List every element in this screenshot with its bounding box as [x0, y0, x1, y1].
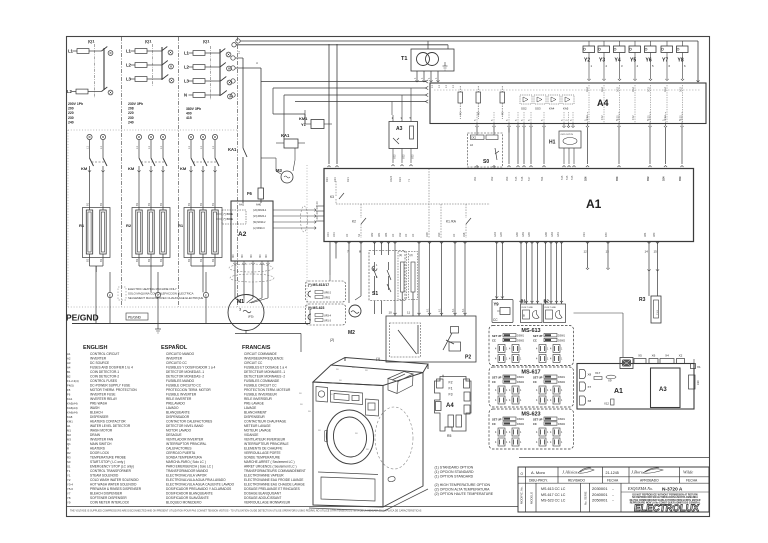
connector X5 X6 X4 X2	[634, 359, 646, 364]
svg-text:G81: G81	[556, 232, 560, 237]
svg-text:MOTOR THERM. PROTECTION: MOTOR THERM. PROTECTION	[90, 388, 137, 392]
svg-text:B1: B1	[147, 202, 151, 206]
svg-text:6.1: 6.1	[451, 308, 455, 312]
svg-text:UR0-2: UR0-2	[324, 292, 332, 295]
svg-text:X0: X0	[345, 233, 349, 237]
svg-text:ELECTROLUX: ELECTROLUX	[633, 503, 700, 514]
svg-text:T1: T1	[67, 469, 71, 473]
svg-text:UR3-4: UR3-4	[324, 315, 332, 318]
svg-text:K94: K94	[325, 177, 329, 182]
svg-text:X04: X04	[332, 232, 336, 237]
svg-text:KM: KM	[81, 166, 88, 171]
svg-text:S2: S2	[357, 233, 361, 237]
svg-text:A4: A4	[67, 366, 71, 370]
heater area dotted enclosure	[68, 129, 237, 131]
svg-text:240: 240	[68, 120, 74, 124]
svg-text:B2: B2	[135, 258, 139, 262]
svg-text:240: 240	[128, 120, 134, 124]
svg-text:DO NOT REPRODUCE WITHOUT PERMI: DO NOT REPRODUCE WITHOUT PERMISSION AT R…	[632, 493, 698, 496]
legend separator line	[67, 506, 519, 508]
svg-text:AH2: AH2	[239, 203, 245, 207]
svg-text:WATER LEVEL DETECTOR: WATER LEVEL DETECTOR	[90, 424, 131, 428]
svg-text:NE PAS COMMUNIQUER SANS AUTORI: NE PAS COMMUNIQUER SANS AUTORISATION ECR…	[630, 499, 701, 502]
svg-text:X08: X08	[425, 232, 429, 237]
fuses F1 F2 F3 inside A4	[458, 92, 463, 103]
svg-text:--: --	[612, 487, 614, 491]
svg-text:ELECTROVANNE EAU FROIDE LAVAGE: ELECTROVANNE EAU FROIDE LAVAGE	[244, 478, 303, 482]
svg-text:552: 552	[615, 176, 619, 181]
svg-text:(*) MS-613/17: (*) MS-613/17	[308, 283, 329, 287]
svg-text:S0: S0	[67, 460, 71, 464]
svg-text:A3: A3	[659, 387, 667, 393]
svg-text:X0: X0	[315, 206, 319, 210]
svg-text:230V 3Ph: 230V 3Ph	[128, 102, 143, 106]
wires S1 to P2	[374, 301, 376, 314]
svg-text:VERROUILLAGE PORTE: VERROUILLAGE PORTE	[244, 451, 281, 455]
svg-text:PRELAVADO: PRELAVADO	[166, 402, 186, 406]
svg-text:F1-2-3(4): F1-2-3(4)	[67, 379, 79, 383]
svg-text:PE/GND: PE/GND	[128, 315, 142, 319]
svg-text:F5: F5	[67, 388, 71, 392]
svg-text:SET UP: SET UP	[533, 376, 543, 380]
svg-text:DOOR LOCK: DOOR LOCK	[90, 451, 110, 455]
svg-text:B2: B2	[67, 375, 71, 379]
A2 aux connector	[222, 210, 246, 224]
svg-text:DETECTOR NIVEL BANO: DETECTOR NIVEL BANO	[166, 424, 204, 428]
svg-text:N: N	[184, 93, 187, 98]
svg-text:H1: H1	[67, 424, 71, 428]
svg-text:D21: D21	[346, 177, 350, 182]
X-block dark component	[620, 358, 633, 369]
svg-text:E: E	[205, 294, 207, 298]
svg-text:Y5-6: Y5-6	[67, 487, 73, 491]
title strip line	[519, 457, 709, 459]
svg-text:X4: X4	[665, 354, 669, 358]
svg-text:SET UP: SET UP	[492, 418, 502, 422]
svg-text:MAIN SWITCH: MAIN SWITCH	[90, 442, 112, 446]
svg-text:384: 384	[384, 232, 388, 237]
svg-text:10: 10	[389, 311, 393, 315]
svg-text:HEATERS: HEATERS	[90, 447, 105, 451]
svg-text:X0: X0	[411, 233, 415, 237]
svg-text:KA1: KA1	[281, 133, 290, 138]
svg-text:382: 382	[370, 232, 374, 237]
svg-text:(2) HIGH TEMPERATURE OPTION: (2) HIGH TEMPERATURE OPTION	[435, 483, 491, 487]
svg-text:KM1: KM1	[299, 116, 308, 121]
svg-text:B1: B1	[67, 370, 71, 374]
svg-text:200V 1Ph: 200V 1Ph	[68, 102, 83, 106]
svg-text:NO REPRODUCIR SIN AUTORIZACION: NO REPRODUCIR SIN AUTORIZACION ESCRITA D…	[632, 496, 698, 499]
svg-text:CONTROL CIRCUIT: CONTROL CIRCUIT	[90, 352, 119, 356]
connector box MS-617	[489, 367, 574, 407]
svg-text:DSW1: DSW1	[517, 418, 525, 421]
svg-text:Q1: Q1	[67, 442, 71, 446]
svg-text:K3: K3	[330, 195, 334, 199]
svg-text:3G2: 3G2	[600, 87, 604, 92]
svg-text:ARRET URGENCE ( Seulement LC ): ARRET URGENCE ( Seulement LC )	[244, 465, 297, 469]
machine door	[324, 408, 376, 467]
svg-text:1X: 1X	[442, 374, 445, 377]
coin unit S0 box	[468, 133, 503, 167]
svg-text:1S2: 1S2	[585, 115, 589, 120]
ground under T1	[444, 62, 446, 66]
svg-text:393: 393	[505, 176, 509, 181]
svg-text:DISPENSER: DISPENSER	[90, 415, 109, 419]
svg-text:M1: M1	[67, 429, 71, 433]
washing machine outline	[313, 358, 428, 508]
svg-text:INVERSEUR/FREQUENCE: INVERSEUR/FREQUENCE	[244, 357, 284, 361]
svg-text:MARCHA-PARO ( Solo LC ): MARCHA-PARO ( Solo LC )	[166, 460, 206, 464]
svg-text:PROTECTION TERM. MOTEUR: PROTECTION TERM. MOTEUR	[244, 388, 291, 392]
svg-text:R: R	[67, 447, 69, 451]
MS-613/17 option box	[306, 281, 346, 302]
ground symbol	[157, 324, 159, 330]
svg-text:FUSES AND DOSIFIER 1 to 4: FUSES AND DOSIFIER 1 to 4	[90, 366, 133, 370]
svg-text:S1: S1	[372, 291, 378, 297]
svg-text:VENTILATEUR INVERSEUR: VENTILATEUR INVERSEUR	[244, 438, 286, 442]
A4 connector detail	[435, 377, 472, 432]
svg-text:K50: K50	[604, 232, 608, 237]
wires to P2	[394, 242, 396, 316]
svg-text:A. Moro: A. Moro	[531, 470, 546, 475]
svg-text:PREWASH & RINSES DISPENSER: PREWASH & RINSES DISPENSER	[90, 487, 142, 491]
svg-text:VERROUILLAGE MONNAYEUR: VERROUILLAGE MONNAYEUR	[244, 501, 291, 505]
heater group frame R2	[132, 208, 170, 258]
option resistors (1)(2)	[398, 252, 407, 300]
svg-text:CC: CC	[493, 318, 498, 322]
svg-text:MS-613: MS-613	[521, 328, 540, 334]
svg-text:(2): (2)	[330, 338, 334, 342]
svg-text:220: 220	[68, 111, 74, 115]
svg-text:R2: R2	[126, 223, 132, 228]
svg-text:KA6(A4): KA6(A4)	[67, 406, 78, 410]
svg-text:LAVADO: LAVADO	[166, 406, 179, 410]
svg-text:T300: T300	[656, 309, 659, 315]
svg-text:R3: R3	[67, 456, 71, 460]
svg-text:X02: X02	[393, 154, 397, 159]
titleblock models	[535, 483, 537, 512]
svg-text:J.Alisias: J.Alisias	[562, 470, 578, 475]
svg-text:MODELO: MODELO	[530, 491, 534, 504]
svg-text:220: 220	[128, 111, 134, 115]
svg-text:D: D	[255, 62, 259, 64]
svg-text:(*) BR0E: (*) BR0E	[224, 213, 234, 216]
svg-text:FUSIBLES COMMANDE: FUSIBLES COMMANDE	[244, 379, 279, 383]
svg-text:Y9: Y9	[67, 501, 71, 505]
svg-text:N-3720 A: N-3720 A	[662, 487, 683, 493]
svg-text:SET UP: SET UP	[533, 418, 543, 422]
svg-text:FRANCAIS: FRANCAIS	[242, 345, 271, 351]
svg-text:A2: A2	[67, 357, 71, 361]
heater resistors R1	[86, 210, 92, 254]
PE terminal	[107, 292, 112, 297]
svg-text:Y2: Y2	[67, 478, 71, 482]
svg-text:(F5): (F5)	[248, 315, 254, 319]
svg-text:IN SLT GND: IN SLT GND	[545, 307, 557, 309]
svg-text:KM: KM	[128, 166, 135, 171]
svg-text:HOT WASH WATER SOLENOID: HOT WASH WATER SOLENOID	[90, 483, 137, 487]
svg-text:X02: X02	[411, 154, 415, 159]
svg-text:338: 338	[462, 232, 466, 237]
svg-text:KA5: KA5	[563, 107, 569, 111]
svg-text:--: --	[612, 493, 614, 497]
svg-text:3G2: 3G2	[679, 87, 683, 92]
svg-text:WASH MOTOR: WASH MOTOR	[90, 429, 113, 433]
svg-text:X1: X1	[697, 365, 701, 369]
top bus wires	[236, 39, 240, 43]
svg-text:--: --	[612, 499, 614, 503]
svg-text:FUSIBLES ET DOSAGE 1 a 4: FUSIBLES ET DOSAGE 1 a 4	[244, 366, 287, 370]
svg-text:1S2: 1S2	[663, 115, 667, 120]
svg-text:DSW1: DSW1	[558, 335, 566, 338]
svg-text:DSW1: DSW1	[558, 418, 566, 421]
connector X10	[689, 375, 696, 389]
svg-text:DSW1: DSW1	[517, 376, 525, 379]
svg-text:K1 /KA: K1 /KA	[446, 220, 457, 224]
svg-text:INTERRUPTEUR PRINCIPALE: INTERRUPTEUR PRINCIPALE	[244, 442, 289, 446]
svg-text:MS-623 CC LC: MS-623 CC LC	[541, 499, 566, 503]
svg-text:AH0: AH0	[256, 203, 262, 207]
svg-text:DOSAGE ADOUCISSANT: DOSAGE ADOUCISSANT	[244, 496, 281, 500]
machine dispenser box on top	[388, 372, 413, 394]
svg-text:B1: B1	[86, 202, 90, 206]
svg-text:M0: M0	[231, 254, 235, 258]
svg-text:DISPENSADOR: DISPENSADOR	[166, 415, 190, 419]
svg-text:BLOQUEO MONEDERO: BLOQUEO MONEDERO	[166, 501, 202, 505]
svg-text:FUSIBLE INVERSEUR: FUSIBLE INVERSEUR	[244, 393, 277, 397]
svg-text:ELECTROVANNE VAPEUR: ELECTROVANNE VAPEUR	[244, 474, 284, 478]
svg-text:S0: S0	[483, 159, 489, 165]
svg-text:F6: F6	[247, 191, 253, 196]
svg-text:ELEMENTS DE CHAUFFE: ELEMENTS DE CHAUFFE	[244, 447, 282, 451]
svg-text:ELECTROVANNE EAU CHAUDE LAVAGE: ELECTROVANNE EAU CHAUDE LAVAGE	[244, 483, 305, 487]
svg-text:KA6(A4): KA6(A4)	[67, 411, 78, 415]
svg-text:INVERTER: INVERTER	[90, 357, 107, 361]
svg-text:ELECTROVALVULA VAPOR: ELECTROVALVULA VAPOR	[166, 474, 207, 478]
svg-text:EMERGENCY STOP (LC only): EMERGENCY STOP (LC only)	[90, 465, 134, 469]
svg-text:ELECTROVALVULA AGUA FRIA LAVAD: ELECTROVALVULA AGUA FRIA LAVADO	[166, 478, 226, 482]
connector box MS-623	[489, 409, 574, 449]
svg-text:Y1: Y1	[301, 122, 307, 127]
svg-text:X10: X10	[696, 380, 700, 385]
svg-text:INVERTER: INVERTER	[166, 357, 183, 361]
svg-text:X17: X17	[595, 371, 601, 375]
svg-text:X0: X0	[315, 201, 319, 205]
svg-text:BLANCHIMENT: BLANCHIMENT	[244, 411, 267, 415]
svg-text:B1: B1	[211, 202, 215, 206]
inverter A2 box	[231, 201, 273, 261]
svg-text:21-1245: 21-1245	[606, 471, 619, 475]
svg-text:B1: B1	[159, 202, 163, 206]
svg-text:A1: A1	[614, 388, 623, 395]
svg-text:230: 230	[128, 116, 134, 120]
svg-text:|Q1: |Q1	[88, 39, 95, 44]
svg-text:E: E	[109, 294, 111, 298]
svg-text:HEATERS CONTACTOR: HEATERS CONTACTOR	[90, 420, 126, 424]
svg-text:3G2: 3G2	[663, 87, 667, 92]
svg-text:TRANSFORMATEURS COMMANDEMENT: TRANSFORMATEURS COMMANDEMENT	[244, 469, 306, 473]
svg-text:S1: S1	[67, 465, 71, 469]
svg-text:FECHA: FECHA	[686, 479, 698, 483]
svg-text:(1) OPCION STANDARD: (1) OPCION STANDARD	[435, 470, 474, 474]
svg-text:B2: B2	[211, 258, 215, 262]
drain pump M2	[348, 242, 350, 303]
svg-text:1S2: 1S2	[631, 115, 635, 120]
svg-text:516: 516	[520, 176, 524, 181]
svg-text:P2: P2	[465, 355, 471, 361]
svg-text:(U4) MX20-4: (U4) MX20-4	[253, 210, 267, 212]
svg-text:B2: B2	[187, 258, 191, 262]
control circuit A1 box	[324, 169, 694, 242]
svg-text:VIDANGE: VIDANGE	[244, 433, 258, 437]
svg-text:Y4: Y4	[615, 58, 621, 64]
machine drum dashed	[375, 407, 413, 469]
svg-text:VENTILADOR INVERTER: VENTILADOR INVERTER	[166, 438, 204, 442]
svg-text:COIN DETECTOR-2: COIN DETECTOR-2	[90, 375, 119, 379]
svg-text:DC-POWER SUPPLY FUSE: DC-POWER SUPPLY FUSE	[90, 384, 130, 388]
svg-text:MS-617 CC LC: MS-617 CC LC	[541, 493, 566, 497]
svg-text:D24: D24	[398, 177, 402, 182]
svg-text:3G2: 3G2	[647, 87, 651, 92]
svg-text:OK2 OUT IN: OK2 OUT IN	[561, 134, 574, 136]
svg-text:F1: F1	[449, 387, 453, 391]
svg-text:SEULEMENT MACHINE AVEC CHAUFFA: SEULEMENT MACHINE AVEC CHAUFFAGE ELECTRI…	[128, 296, 203, 300]
svg-text:553: 553	[678, 176, 682, 181]
section divider 1	[121, 37, 123, 307]
svg-text:3G2: 3G2	[631, 87, 635, 92]
svg-text:(1): (1)	[399, 253, 402, 257]
svg-text:DSW2: DSW2	[558, 381, 566, 384]
svg-text:11: 11	[407, 311, 410, 315]
svg-text:THE VOLTAGE IS SUPPLIED COMPRE: THE VOLTAGE IS SUPPLIED COMPRESSORS ARE …	[70, 510, 422, 513]
svg-text:PE/GND: PE/GND	[66, 313, 99, 323]
machine drain stub	[388, 476, 395, 481]
svg-text:FUSIBLES MANDO: FUSIBLES MANDO	[166, 379, 195, 383]
svg-text:Y9: Y9	[494, 302, 500, 307]
connectors X8 X7 X9 left	[580, 370, 586, 379]
svg-text:(1) STANDARD OPTION: (1) STANDARD OPTION	[435, 466, 474, 470]
svg-text:12: 12	[584, 250, 588, 254]
svg-text:F2: F2	[449, 381, 453, 385]
svg-text:332: 332	[398, 232, 402, 237]
svg-text:415: 415	[186, 116, 192, 120]
svg-text:CONTACTEUR CHAUFFAGE: CONTACTEUR CHAUFFAGE	[244, 420, 286, 424]
svg-text:1S2: 1S2	[600, 115, 604, 120]
wires A4 to A1	[476, 124, 478, 127]
svg-text:Y8: Y8	[678, 58, 684, 64]
svg-text:SONDE TEMPERATURE: SONDE TEMPERATURE	[244, 456, 280, 460]
svg-text:(*) MS-623: (*) MS-623	[308, 306, 325, 310]
svg-text:SONDA TEMPERATURA: SONDA TEMPERATURA	[166, 456, 203, 460]
svg-text:KA8: KA8	[67, 415, 73, 419]
svg-text:G84: G84	[550, 232, 554, 237]
svg-text:F4(5): F4(5)	[67, 384, 74, 388]
svg-text:G80: G80	[515, 232, 519, 237]
svg-text:ELECTRIC HEATING MACHINE ONLY: ELECTRIC HEATING MACHINE ONLY	[128, 287, 177, 291]
svg-text:FECHA: FECHA	[607, 479, 619, 483]
svg-text:M0: M0	[249, 254, 253, 258]
svg-text:B2: B2	[544, 299, 550, 304]
svg-text:MS-613 CC LC: MS-613 CC LC	[541, 487, 566, 491]
svg-text:X0: X0	[315, 211, 319, 215]
PE terminal	[203, 292, 208, 297]
svg-text:X8: X8	[588, 399, 592, 403]
svg-text:DOSIFICADOR SUAVIZANTE: DOSIFICADOR SUAVIZANTE	[166, 496, 209, 500]
svg-text:A3: A3	[67, 361, 71, 365]
svg-text:R5: R5	[447, 434, 451, 438]
svg-text:STEAM SOLENOID: STEAM SOLENOID	[90, 474, 119, 478]
contactor R1 group	[87, 134, 92, 139]
svg-text:CONTROL TRANSFORMER: CONTROL TRANSFORMER	[90, 469, 132, 473]
svg-text:B2: B2	[99, 258, 103, 262]
connector box MS-613	[489, 326, 574, 366]
svg-text:No. SERIE: No. SERIE	[584, 491, 588, 505]
machine base line	[309, 508, 384, 511]
svg-text:METEUR LAVAGE: METEUR LAVAGE	[244, 424, 271, 428]
svg-text:X2: X2	[679, 354, 683, 358]
svg-text:SOFTENER DISPENSER: SOFTENER DISPENSER	[90, 496, 127, 500]
svg-text:G83: G83	[521, 232, 525, 237]
svg-text:K2: K2	[352, 220, 356, 224]
svg-text:G95: G95	[499, 232, 503, 237]
svg-text:PRE-WASH: PRE-WASH	[90, 402, 108, 406]
svg-text:J.Bors: J.Bors	[631, 470, 643, 475]
svg-text:G85: G85	[527, 232, 531, 237]
svg-text:SG2: SG2	[521, 107, 527, 111]
svg-text:(1) OPTION STANDARD: (1) OPTION STANDARD	[435, 475, 474, 479]
svg-text:FUSIBLE CIRCUIT CC: FUSIBLE CIRCUIT CC	[244, 384, 277, 388]
svg-text:X0: X0	[391, 233, 395, 237]
svg-text:ESQUEMA No.: ESQUEMA No.	[627, 486, 653, 491]
svg-text:UR1-3: UR1-3	[324, 320, 332, 323]
svg-text:MODIFIC. No.: MODIFIC. No.	[520, 486, 524, 504]
svg-text:PARO EMERGENCIA ( Solo LC ): PARO EMERGENCIA ( Solo LC )	[166, 465, 213, 469]
svg-text:B2: B2	[199, 258, 203, 262]
svg-text:DC SOURCE: DC SOURCE	[90, 361, 109, 365]
A1 left pins	[316, 205, 324, 207]
svg-text:M2: M2	[348, 330, 355, 336]
triacs SG2 SG3 KA4 KA5	[520, 95, 532, 104]
svg-text:CC: CC	[492, 339, 496, 343]
svg-text:LAVAGE: LAVAGE	[244, 406, 256, 410]
svg-text:2030001: 2030001	[592, 486, 608, 491]
svg-text:A3: A3	[396, 126, 403, 132]
svg-text:PROTECCION TERM. MOTOR: PROTECCION TERM. MOTOR	[166, 388, 211, 392]
svg-text:M3: M3	[276, 168, 282, 173]
internal dashed bus	[336, 203, 490, 205]
svg-text:DISPENSEUR: DISPENSEUR	[244, 415, 265, 419]
contactor R2 group	[136, 134, 141, 139]
svg-text:FUSIBLES Y DOSIFICADOR 1 a 4: FUSIBLES Y DOSIFICADOR 1 a 4	[166, 366, 216, 370]
MS-623 option box	[306, 304, 346, 325]
svg-text:CC: CC	[533, 380, 537, 384]
svg-text:392: 392	[490, 176, 494, 181]
svg-text:A1: A1	[67, 352, 71, 356]
svg-text:(2): (2)	[410, 253, 413, 257]
wire main feed	[236, 57, 243, 59]
svg-text:M3: M3	[67, 438, 71, 442]
svg-text:G94: G94	[493, 232, 497, 237]
svg-text:B1: B1	[521, 299, 527, 304]
svg-text:Y6: Y6	[646, 58, 652, 64]
svg-text:COLD WASH WATER SOLENOID: COLD WASH WATER SOLENOID	[90, 478, 139, 482]
svg-text:H1: H1	[549, 140, 556, 146]
svg-text:B2: B2	[159, 258, 163, 262]
svg-text:SG3: SG3	[535, 107, 541, 111]
svg-text:INVERTER RELAY: INVERTER RELAY	[90, 397, 118, 401]
svg-text:INTERRUPTOR PRINCIPAL: INTERRUPTOR PRINCIPAL	[166, 442, 207, 446]
svg-text:DOSIFICADOR PRELAVADO Y ACLARA: DOSIFICADOR PRELAVADO Y ACLARADOS	[166, 487, 231, 491]
